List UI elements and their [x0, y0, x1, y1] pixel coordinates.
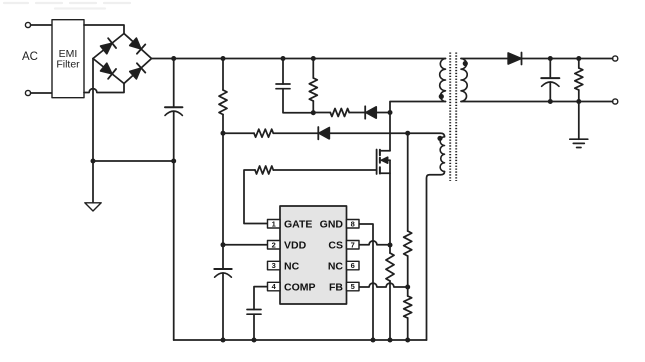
- pin 8 box: [347, 220, 360, 229]
- svg-text:FB: FB: [329, 282, 343, 294]
- pin 4 box: [268, 282, 281, 291]
- node bridge negative / ground link: [91, 159, 96, 164]
- current sense resistor R6: [386, 253, 394, 281]
- wire gate resistor to MOSFET gate: [273, 169, 376, 171]
- pin numbers: [272, 219, 355, 291]
- svg-text:NC: NC: [284, 261, 300, 273]
- svg-text:Filter: Filter: [56, 59, 80, 71]
- FB divider upper wire: [407, 133, 409, 231]
- AC terminal bottom: [25, 90, 30, 95]
- EMI filter box: [52, 20, 84, 98]
- FB lower resistor R8: [404, 296, 412, 318]
- svg-text:2: 2: [272, 240, 276, 249]
- COMP capacitor C5: [247, 310, 261, 315]
- node rail startup R: [221, 56, 226, 61]
- transformer core: [449, 53, 451, 182]
- svg-text:NC: NC: [328, 261, 344, 273]
- node rail snubber R: [311, 56, 316, 61]
- clamp diode D5 (cathode left): [364, 106, 366, 118]
- wire aux bottom lead down to rail: [427, 172, 445, 341]
- node output cap bottom: [548, 99, 553, 104]
- bridge diode D1 upper-left: [100, 38, 116, 55]
- svg-text:1: 1: [272, 219, 276, 228]
- wire clamp diode to drain node: [376, 112, 390, 114]
- wire clamp R to clamp diode: [349, 112, 365, 114]
- load resistor R4: [578, 59, 580, 69]
- startup resistor R1: [222, 59, 224, 91]
- chassis ground symbol: [85, 203, 101, 211]
- MOSFET drain stub: [380, 150, 390, 152]
- gate resistor R9: [255, 166, 273, 174]
- transformer auxiliary winding: [440, 137, 444, 172]
- AC terminal top: [25, 22, 30, 27]
- node rail COMP cap: [252, 338, 257, 343]
- node snubber bottom: [311, 110, 316, 115]
- bridge diode D4 lower-right: [129, 63, 145, 80]
- svg-text:AC: AC: [22, 51, 38, 63]
- svg-text:6: 6: [351, 261, 355, 270]
- node rail CS resistor: [388, 338, 393, 343]
- node CS junction: [388, 243, 393, 248]
- node load resistor bottom / ground: [576, 99, 581, 104]
- gate drive wire from pin1: [244, 170, 268, 224]
- node drain clamp junction: [388, 110, 393, 115]
- svg-text:7: 7: [351, 240, 355, 249]
- wire output ground drop: [578, 102, 580, 140]
- pin 2 box: [268, 241, 281, 250]
- wire EMI to bridge bottom vertex (hop over ground line): [84, 84, 124, 93]
- svg-text:5: 5: [351, 282, 355, 291]
- pin 1 box: [268, 220, 281, 229]
- node rail FB resistor: [405, 338, 410, 343]
- IC pin labels: [284, 219, 343, 294]
- COMP pin wire: [254, 287, 268, 310]
- svg-text:GATE: GATE: [284, 219, 312, 231]
- output terminal bottom: [613, 99, 618, 104]
- bridge diode D2 upper-right: [129, 37, 145, 54]
- earth ground symbol: [570, 139, 588, 147]
- output capacitor C3 (polarized): [549, 59, 551, 79]
- MOSFET channel segments: [379, 150, 381, 174]
- svg-text:CS: CS: [328, 240, 343, 252]
- secondary polarity dot: [463, 61, 468, 66]
- pin 7 box: [347, 241, 360, 250]
- output terminal top: [613, 56, 618, 61]
- wire top rail: [152, 58, 446, 60]
- FB pin wire (hops over GND and CS lines): [360, 283, 408, 287]
- wire source down to CS node: [389, 160, 391, 253]
- wire EMI to bridge top vertex: [84, 25, 124, 34]
- node output cap top: [548, 56, 553, 61]
- snubber resistor R2: [312, 59, 314, 79]
- svg-text:GND: GND: [320, 219, 344, 231]
- output diode D6: [508, 53, 521, 64]
- VDD series resistor R5: [254, 129, 273, 137]
- wire snubber to clamp resistor: [313, 112, 330, 114]
- snubber capacitor C2: [282, 59, 284, 85]
- VDD diode D7 (cathode left): [317, 127, 319, 139]
- wire AC top to EMI: [31, 24, 52, 26]
- node rail snubber C: [281, 56, 286, 61]
- node rail GND pin: [371, 338, 376, 343]
- primary polarity dot: [439, 94, 444, 99]
- wire primary bottom to drain: [390, 102, 446, 151]
- bridge diode D3 lower-left: [100, 62, 116, 79]
- node aux FB divider top: [405, 131, 410, 136]
- node bulk cap bottom link: [171, 159, 176, 164]
- pin 6 box: [347, 261, 360, 270]
- aux polarity dot: [437, 136, 442, 141]
- wire AC bottom to EMI: [31, 92, 52, 94]
- wire aux top lead: [408, 133, 445, 137]
- svg-text:COMP: COMP: [284, 282, 316, 294]
- wire bridge negative down: [92, 59, 94, 203]
- bridge rectifier diamond: [93, 34, 152, 84]
- wire VDD diode to aux junction (crosses drain line): [329, 132, 408, 134]
- MOSFET body arrow: [382, 159, 391, 161]
- node VDD pin junction: [221, 242, 226, 247]
- GND pin wire: [360, 224, 374, 340]
- svg-text:VDD: VDD: [284, 240, 307, 252]
- VDD pin wire: [223, 244, 268, 246]
- node FB junction: [405, 285, 410, 290]
- MOSFET source stub: [380, 172, 390, 174]
- transformer secondary winding: [461, 59, 467, 102]
- wire secondary bottom to output terminal: [461, 101, 613, 103]
- svg-text:8: 8: [351, 219, 355, 228]
- node rail VDD cap: [221, 338, 226, 343]
- wire output diode to terminal: [522, 58, 613, 60]
- CS pin wire (hop over GND line): [360, 241, 391, 245]
- node load resistor top: [576, 56, 581, 61]
- transformer primary winding: [440, 59, 446, 102]
- MOSFET Q1 gate bar: [376, 150, 378, 175]
- FB upper resistor R7: [404, 231, 412, 256]
- bottom ground rail: [174, 339, 427, 341]
- wire resistor to VDD diode: [273, 132, 318, 134]
- svg-text:3: 3: [272, 261, 276, 270]
- clamp resistor R3: [330, 109, 349, 117]
- bulk capacitor C1 (polarized): [173, 59, 175, 108]
- wire ground link to bulk cap: [93, 160, 174, 162]
- pin 5 box: [347, 282, 360, 291]
- VDD charge line from aux: [223, 132, 254, 134]
- cropped caption remnant top edge: [4, 3, 130, 9]
- pin 3 box: [268, 261, 281, 270]
- VDD decoupling capacitor C4 (polarized): [222, 245, 224, 269]
- wire secondary top to output diode: [461, 58, 508, 60]
- controller IC U1 body: [280, 206, 347, 304]
- node VDD line left: [221, 131, 226, 136]
- node rail bulk cap: [171, 56, 176, 61]
